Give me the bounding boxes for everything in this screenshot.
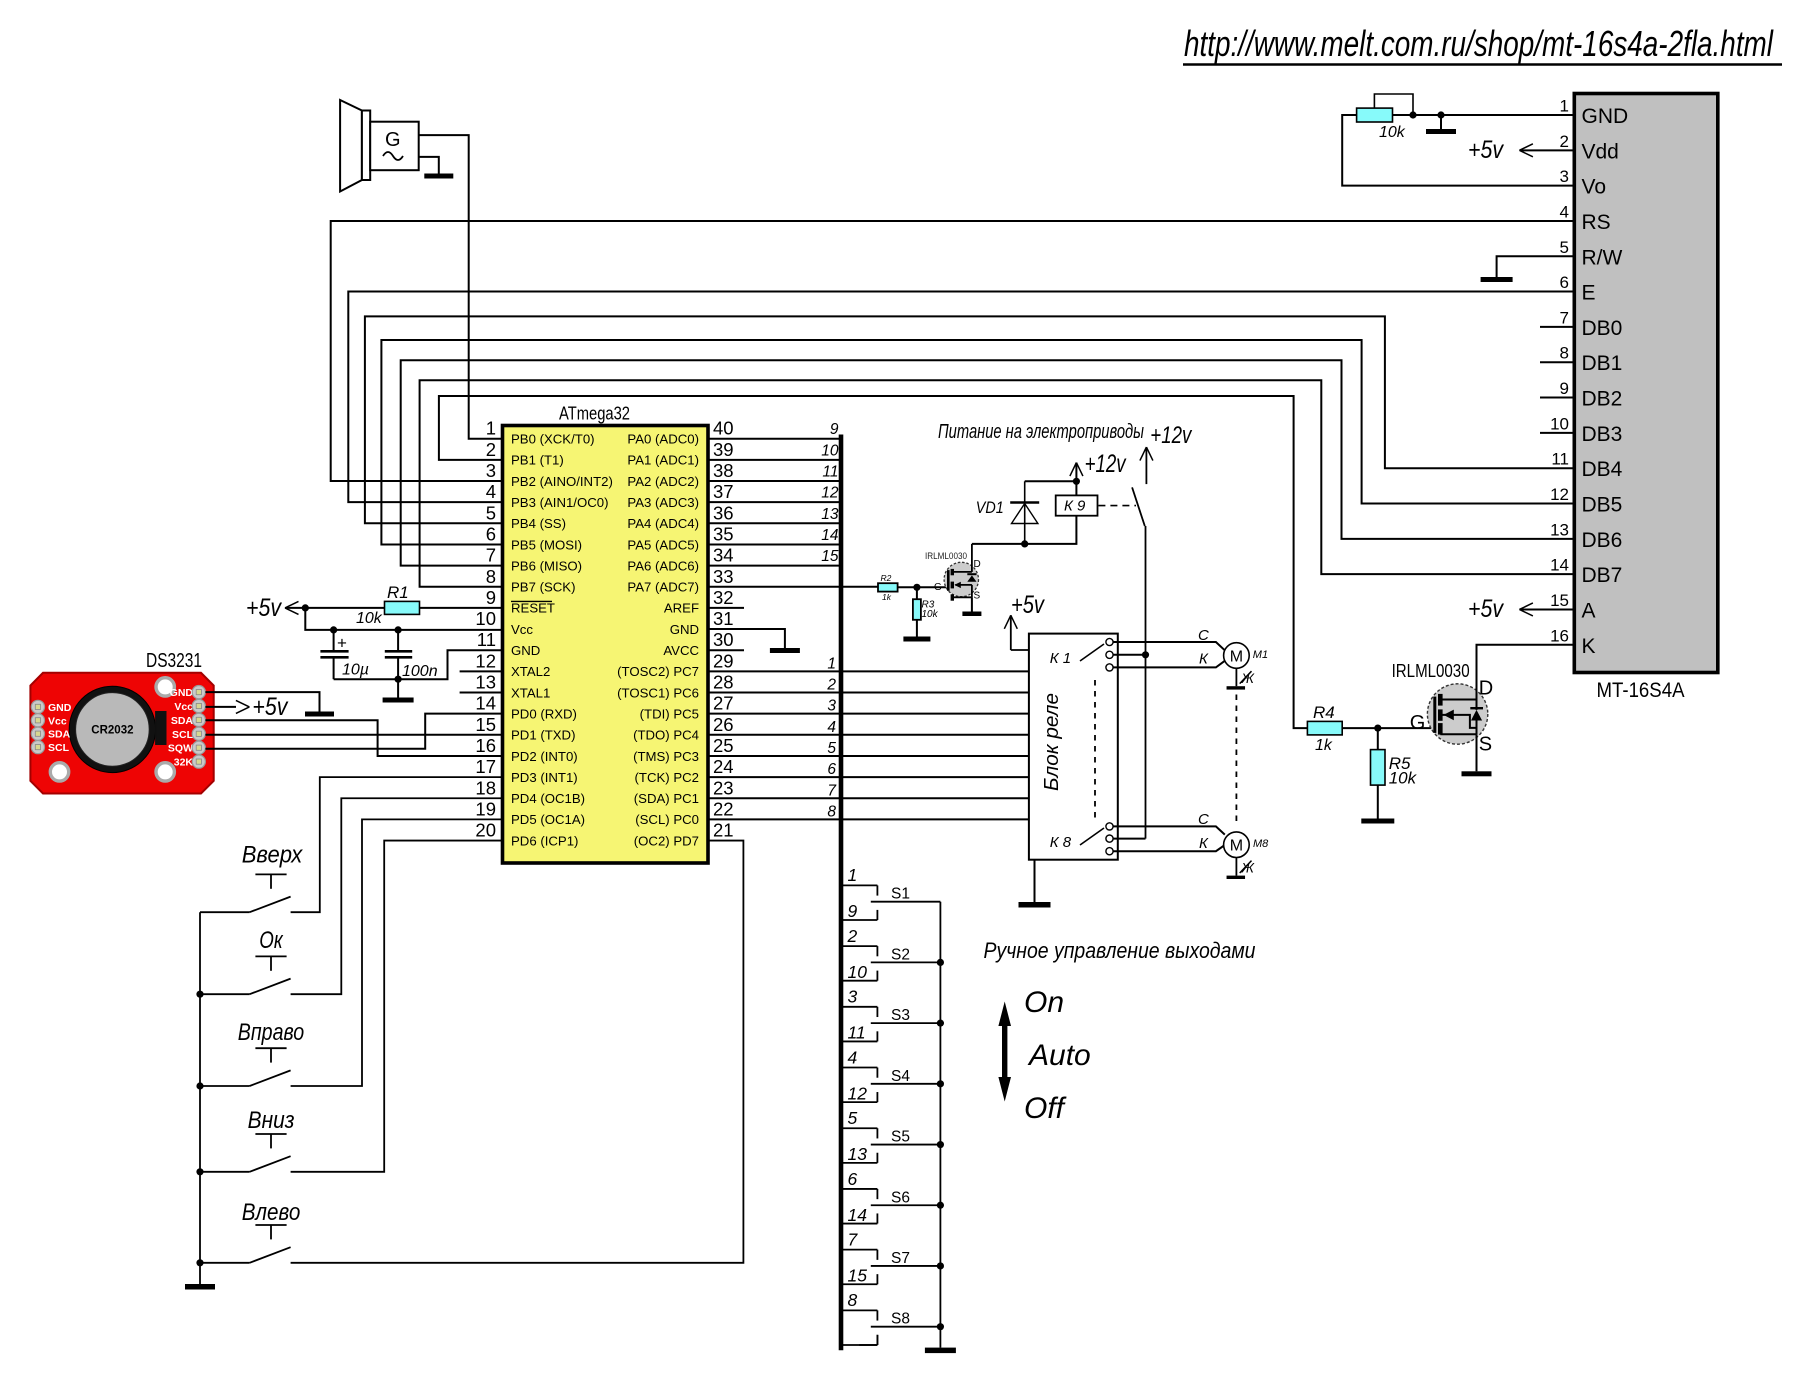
wire switch common (937, 902, 944, 1348)
svg-text:12: 12 (848, 1083, 868, 1103)
svg-text:39: 39 (713, 439, 734, 460)
net label 4 S4 (848, 1047, 858, 1067)
wire K1 NC to M1 K (1113, 651, 1225, 668)
svg-text:G: G (1410, 712, 1426, 734)
svg-text:3: 3 (848, 987, 858, 1007)
svg-text:S3: S3 (891, 1007, 910, 1024)
motor M8 (1224, 832, 1270, 858)
svg-text:R2: R2 (881, 573, 892, 583)
net label 1 S1 (848, 865, 858, 885)
node +5v backlight A (1468, 595, 1574, 623)
svg-text:37: 37 (713, 481, 734, 502)
svg-text:DB0: DB0 (1582, 317, 1623, 340)
svg-text:4: 4 (1560, 202, 1569, 221)
svg-text:1: 1 (848, 865, 858, 885)
wire PA6 net 15 (708, 565, 841, 567)
net label 12 S4 (848, 1083, 868, 1103)
svg-text:6: 6 (827, 761, 836, 778)
wire Ок to pin 18 (291, 798, 503, 994)
svg-text:К 9: К 9 (1064, 498, 1086, 515)
svg-text:M: M (1230, 649, 1243, 666)
svg-text:К: К (1199, 835, 1209, 852)
svg-text:Vcc: Vcc (174, 701, 193, 713)
svg-text:12: 12 (821, 485, 839, 502)
svg-text:14: 14 (821, 527, 839, 544)
svg-text:10: 10 (475, 608, 496, 629)
motor M1 (1224, 643, 1268, 669)
module DS3231 RTC (30, 650, 213, 794)
svg-text:(SCL) PC0: (SCL) PC0 (635, 812, 699, 827)
svg-text:Ручное управление выходами: Ручное управление выходами (984, 938, 1256, 963)
pin DB0 stub (1540, 326, 1574, 328)
svg-text:PB2 (AINO/INT2): PB2 (AINO/INT2) (511, 474, 613, 489)
wire PB2 to LCD RS (331, 221, 1575, 481)
wire button common rail (196, 912, 203, 1284)
net label 11 (822, 464, 838, 481)
wire PC5 net 3 to relay block (708, 713, 1029, 715)
wire PB1 to R4 backlight (439, 396, 1308, 728)
switch S4 (841, 1068, 940, 1103)
svg-text:+5v: +5v (1011, 591, 1045, 619)
svg-text:Ж: Ж (1241, 671, 1256, 686)
svg-text:XTAL2: XTAL2 (511, 664, 550, 679)
wire K1 common +12v (1113, 654, 1146, 656)
svg-text:7: 7 (1560, 308, 1569, 327)
svg-text:ATmega32: ATmega32 (559, 403, 630, 424)
svg-text:29: 29 (713, 650, 734, 671)
svg-text:PA2 (ADC2): PA2 (ADC2) (627, 474, 699, 489)
wire Вправо to pin 19 (291, 819, 503, 1086)
label Auto (1027, 1039, 1091, 1072)
pin XTAL2 stub (460, 670, 503, 672)
svg-text:PB3 (AIN1/OC0): PB3 (AIN1/OC0) (511, 495, 608, 510)
net label 6 (827, 761, 836, 778)
wire PA0 net 9 (708, 438, 841, 440)
wire PC1 net 7 to relay block (708, 797, 1029, 799)
wire PA7 to R2 (708, 586, 878, 588)
svg-text:10: 10 (821, 442, 839, 459)
net label 13 (821, 506, 839, 523)
svg-text:2: 2 (826, 677, 836, 694)
svg-text:PB0 (XCK/T0): PB0 (XCK/T0) (511, 432, 595, 447)
svg-text:IRLML0030: IRLML0030 (925, 551, 967, 562)
svg-text:8: 8 (486, 566, 496, 587)
ground buzzer (419, 157, 454, 179)
switch S8 open stub (859, 1335, 877, 1345)
svg-text:RS: RS (1582, 211, 1611, 234)
svg-text:DB2: DB2 (1582, 388, 1623, 411)
svg-text:К 8: К 8 (1050, 834, 1072, 851)
svg-text:PA7 (ADC7): PA7 (ADC7) (627, 580, 699, 595)
svg-text:D: D (974, 559, 981, 570)
svg-text:GND: GND (48, 702, 72, 714)
selector double arrow (998, 1002, 1011, 1102)
label On (1024, 986, 1064, 1019)
wire +12v to relay commons (1142, 526, 1149, 839)
svg-text:1: 1 (486, 418, 496, 439)
wire Влево to pin 21 (291, 841, 744, 1263)
svg-text:Auto: Auto (1027, 1039, 1091, 1072)
svg-text:+5v: +5v (252, 693, 288, 721)
svg-text:5: 5 (827, 740, 836, 757)
net label 15 S7 (848, 1265, 868, 1285)
svg-text:16: 16 (1550, 626, 1569, 645)
svg-text:1k: 1k (1315, 737, 1333, 754)
net label 6 S6 (848, 1169, 858, 1189)
pin DB2 stub (1540, 397, 1574, 399)
svg-text:Влево: Влево (242, 1199, 301, 1226)
svg-text:К 1: К 1 (1050, 650, 1071, 667)
svg-text:S5: S5 (891, 1129, 910, 1146)
wire Q1 drain to K9 (972, 516, 1077, 548)
net label 12 (821, 485, 839, 502)
svg-text:32: 32 (713, 587, 734, 608)
net label 9 (830, 421, 839, 438)
button Ок (200, 927, 291, 994)
net label 2 S2 (847, 926, 858, 946)
svg-text:R/W: R/W (1582, 246, 1623, 269)
wire PC0 net 8 to relay block (708, 818, 1029, 820)
svg-text:On: On (1024, 986, 1064, 1019)
svg-text:S2: S2 (891, 946, 910, 963)
svg-text:PA0 (ADC0): PA0 (ADC0) (627, 432, 699, 447)
svg-text:6: 6 (1560, 273, 1569, 292)
svg-text:S8: S8 (891, 1311, 910, 1328)
svg-text:PB5 (MOSI): PB5 (MOSI) (511, 537, 582, 552)
svg-text:28: 28 (713, 672, 734, 693)
transistor Q1 IRLML0030 (925, 544, 981, 602)
svg-text:26: 26 (713, 714, 734, 735)
wire PB6 to LCD DB6 (401, 360, 1575, 565)
svg-text:14: 14 (848, 1205, 868, 1225)
svg-text:PD3 (INT1): PD3 (INT1) (511, 770, 578, 785)
svg-text:(SDA) PC1: (SDA) PC1 (634, 791, 699, 806)
svg-text:(TOSC1) PC6: (TOSC1) PC6 (617, 685, 699, 700)
svg-text:10: 10 (848, 962, 868, 982)
svg-text:6: 6 (486, 523, 496, 544)
wire SCL to PD1 (205, 734, 502, 736)
button Влево (200, 1199, 300, 1263)
wire Вверх to pin 17 (291, 777, 503, 912)
switch S1 (841, 885, 940, 920)
pin DB1 stub (1540, 361, 1574, 363)
svg-text:PD1 (TXD): PD1 (TXD) (511, 728, 575, 743)
wire PB4 to LCD DB4 (365, 316, 1574, 523)
svg-text:40: 40 (713, 418, 734, 439)
transistor Q2 IRLML0030 (1392, 661, 1494, 756)
svg-text:9: 9 (830, 421, 839, 438)
svg-text:Блок реле: Блок реле (1041, 693, 1063, 791)
net label 11 S3 (848, 1023, 866, 1043)
svg-text:1k: 1k (882, 592, 892, 602)
svg-text:http://www.melt.com.ru/shop/mt: http://www.melt.com.ru/shop/mt-16s4a-2fl… (1184, 23, 1774, 64)
svg-text:3: 3 (486, 460, 496, 481)
svg-text:20: 20 (475, 820, 496, 841)
svg-text:7: 7 (827, 782, 837, 799)
svg-text:MT-16S4A: MT-16S4A (1597, 678, 1686, 702)
svg-text:9: 9 (486, 587, 496, 608)
svg-text:17: 17 (475, 756, 496, 777)
wire R4 to gate Q2 (1342, 725, 1434, 732)
pin DB3 stub (1540, 432, 1574, 434)
pin AREF stub (708, 607, 744, 609)
svg-text:SDA: SDA (48, 729, 71, 741)
ground M8 (1227, 858, 1256, 880)
ground buttons (185, 1284, 215, 1290)
net label 7 S7 (848, 1229, 859, 1249)
svg-text:35: 35 (713, 523, 734, 544)
svg-text:13: 13 (1550, 520, 1569, 539)
net label 5 (827, 740, 836, 757)
svg-text:AREF: AREF (664, 601, 699, 616)
svg-text:Vo: Vo (1582, 176, 1607, 199)
net label 5 S5 (848, 1108, 858, 1128)
buzzer G1 (340, 100, 419, 192)
label Питание на электроприводы (938, 421, 1144, 443)
svg-text:DB3: DB3 (1582, 423, 1623, 446)
svg-text:36: 36 (713, 502, 734, 523)
ground M1 (1227, 668, 1256, 689)
switch S5 (841, 1128, 940, 1163)
wire PA1 net 10 (708, 459, 841, 461)
wire Вниз to pin 20 (291, 841, 503, 1172)
pin AVCC stub (708, 649, 744, 651)
svg-text:2: 2 (486, 439, 496, 460)
wire K1 NO to M1 C (1113, 627, 1225, 650)
relay K1 contacts (1050, 638, 1113, 671)
svg-text:C: C (1198, 627, 1209, 644)
switch K9 contact (1098, 487, 1144, 526)
contrast trimmer 10k (1342, 94, 1574, 186)
svg-text:PA5 (ADC5): PA5 (ADC5) (627, 537, 699, 552)
svg-text:PD2 (INT0): PD2 (INT0) (511, 749, 578, 764)
svg-text:8: 8 (848, 1290, 858, 1310)
svg-text:C: C (1198, 811, 1209, 828)
svg-text:VD1: VD1 (976, 498, 1004, 517)
switch S3 (841, 1007, 940, 1042)
svg-text:15: 15 (821, 548, 839, 565)
svg-text:GND: GND (670, 622, 699, 637)
svg-text:16: 16 (475, 735, 496, 756)
diode VD1 (976, 481, 1039, 544)
svg-text:18: 18 (475, 777, 496, 798)
relay K8 contacts (1050, 823, 1113, 855)
wire PA3 net 12 (708, 501, 841, 503)
svg-text:12: 12 (1550, 485, 1569, 504)
svg-text:SCL: SCL (172, 729, 194, 741)
svg-text:DB7: DB7 (1582, 564, 1623, 587)
svg-text:+5v: +5v (1468, 136, 1504, 164)
svg-text:33: 33 (713, 566, 734, 587)
svg-text:38: 38 (713, 460, 734, 481)
svg-text:32K: 32K (174, 757, 194, 769)
svg-text:(TDI) PC5: (TDI) PC5 (640, 706, 699, 721)
svg-text:8: 8 (827, 803, 836, 820)
svg-text:8: 8 (1560, 344, 1569, 363)
svg-text:E: E (1582, 282, 1596, 305)
button Вниз (200, 1107, 295, 1172)
svg-text:14: 14 (475, 693, 496, 714)
URL caption (1183, 23, 1782, 65)
svg-text:SDA: SDA (171, 715, 194, 727)
node +5v Vdd (1468, 136, 1574, 164)
wire K8 common +12v (1113, 838, 1146, 840)
net label 13 S5 (848, 1144, 868, 1164)
svg-text:Вправо: Вправо (238, 1019, 304, 1046)
svg-text:7: 7 (486, 545, 496, 566)
svg-text:AVCC: AVCC (663, 643, 699, 658)
svg-text:+: + (337, 634, 347, 653)
ground R/W (1481, 256, 1575, 282)
svg-text:24: 24 (713, 756, 734, 777)
IC ATmega32 (475, 403, 733, 864)
svg-text:R4: R4 (1313, 703, 1335, 722)
svg-text:PB6 (MISO): PB6 (MISO) (511, 558, 582, 573)
switch S7 (841, 1250, 940, 1285)
svg-text:R1: R1 (387, 583, 409, 602)
svg-text:10k: 10k (1389, 769, 1418, 788)
svg-text:D: D (1479, 678, 1493, 700)
svg-text:CR2032: CR2032 (91, 725, 133, 737)
resistor R4 1k (1307, 703, 1342, 754)
svg-text:10k: 10k (356, 610, 383, 627)
svg-text:11: 11 (477, 629, 496, 650)
svg-text:3: 3 (1560, 167, 1569, 186)
net label 4 (827, 719, 836, 736)
svg-text:S: S (1479, 734, 1492, 756)
svg-text:(TDO) PC4: (TDO) PC4 (633, 728, 699, 743)
net label 1 (827, 655, 836, 672)
svg-text:G: G (385, 129, 401, 151)
svg-text:Вниз: Вниз (248, 1107, 295, 1134)
ground Q1 source (962, 597, 981, 616)
pin XTAL1 stub (460, 692, 503, 694)
label Ручное управление выходами (984, 938, 1256, 963)
wire PB5 to LCD DB5 (381, 340, 1574, 544)
svg-text:A: A (1582, 599, 1596, 622)
switch S2 (841, 946, 940, 981)
svg-text:DB4: DB4 (1582, 458, 1623, 481)
svg-text:9: 9 (1560, 379, 1569, 398)
button Вверх (200, 842, 303, 913)
svg-text:(TMS) PC3: (TMS) PC3 (633, 749, 699, 764)
svg-text:10k: 10k (1379, 124, 1406, 141)
svg-text:Вверх: Вверх (242, 842, 304, 869)
svg-text:13: 13 (475, 672, 496, 693)
relay block Блок реле (1029, 634, 1118, 860)
wire PC4 net 4 to relay block (708, 734, 1029, 736)
net label 14 (821, 527, 839, 544)
capacitor C1 10µ (320, 630, 369, 679)
svg-text:21: 21 (713, 820, 734, 841)
svg-text:PA6 (ADC6): PA6 (ADC6) (627, 558, 699, 573)
wire PC7 net 1 to relay block (708, 670, 1029, 672)
ground decoupling (383, 679, 414, 702)
wire cap gnd rail to pin11 (334, 650, 503, 683)
svg-text:S1: S1 (891, 886, 910, 903)
svg-text:S: S (974, 591, 981, 602)
svg-text:+12v: +12v (1085, 450, 1127, 478)
svg-text:SQW: SQW (168, 743, 193, 755)
svg-text:GND: GND (1582, 105, 1629, 128)
svg-text:PB7 (SCK): PB7 (SCK) (511, 580, 576, 595)
svg-text:M: M (1230, 838, 1243, 855)
wire buzzer to PB0 pin1 (419, 135, 503, 439)
svg-text:10µ: 10µ (342, 662, 369, 679)
svg-text:Ж: Ж (1241, 860, 1256, 875)
svg-text:PD0 (RXD): PD0 (RXD) (511, 706, 577, 721)
wire K8 NO to M8 C (1113, 811, 1225, 835)
svg-text:XTAL1: XTAL1 (511, 685, 550, 700)
svg-text:(OC2) PD7: (OC2) PD7 (634, 833, 699, 848)
svg-text:2: 2 (1560, 132, 1569, 151)
svg-text:К: К (1199, 651, 1209, 668)
svg-text:+5v: +5v (246, 594, 282, 622)
net label 14 S6 (848, 1205, 868, 1225)
wire DS3231 GND (205, 692, 334, 716)
wire PB3 to LCD E (348, 292, 1574, 503)
svg-text:11: 11 (822, 464, 838, 481)
svg-text:DB6: DB6 (1582, 529, 1623, 552)
button Вправо (200, 1019, 304, 1086)
resistor R3 10k (913, 587, 939, 636)
svg-text:5: 5 (848, 1108, 858, 1128)
svg-text:14: 14 (1550, 556, 1569, 575)
svg-text:31: 31 (713, 608, 734, 629)
svg-text:15: 15 (848, 1265, 868, 1285)
svg-text:Vcc: Vcc (48, 715, 67, 727)
net label 9 S1 (848, 901, 858, 921)
svg-text:Off: Off (1024, 1092, 1067, 1125)
resistor R2 1k (878, 573, 898, 602)
resistor R1 10k (305, 583, 502, 627)
svg-text:27: 27 (713, 693, 734, 714)
ground AGND pin31 (708, 629, 800, 653)
svg-text:K: K (1582, 635, 1596, 658)
svg-text:3: 3 (827, 698, 836, 715)
net label 10 (821, 442, 839, 459)
wire Vcc rail (305, 608, 502, 634)
svg-text:Vcc: Vcc (511, 622, 533, 637)
wire PA4 net 13 (708, 522, 841, 524)
svg-text:DS3231: DS3231 (146, 650, 202, 672)
node +5v relay block (1004, 591, 1045, 650)
svg-text:7: 7 (848, 1229, 859, 1249)
node +12v feed (1140, 422, 1193, 484)
svg-text:PB4 (SS): PB4 (SS) (511, 516, 566, 531)
svg-text:PB1 (T1): PB1 (T1) (511, 453, 564, 468)
net label 8 (827, 803, 836, 820)
dashed repeat link motors (1235, 695, 1237, 823)
svg-text:100n: 100n (402, 663, 438, 680)
capacitor C2 100n (385, 630, 438, 680)
resistor R5 10k (1371, 728, 1418, 818)
bus cable (839, 435, 844, 1351)
node +12v K9 (1025, 450, 1127, 485)
svg-text:S7: S7 (891, 1250, 910, 1267)
net label 8 S8 (848, 1290, 858, 1310)
svg-text:S4: S4 (891, 1068, 910, 1085)
svg-text:S6: S6 (891, 1189, 910, 1206)
wire SDA to PD2 (205, 720, 502, 756)
ground LCD GND (1426, 115, 1456, 134)
svg-text:4: 4 (486, 481, 496, 502)
LCD module MT-16S4A (1550, 94, 1718, 703)
svg-text:PD6 (ICP1): PD6 (ICP1) (511, 833, 578, 848)
svg-text:DB1: DB1 (1582, 352, 1623, 375)
wire PA2 net 11 (708, 480, 841, 482)
svg-text:DB5: DB5 (1582, 494, 1623, 517)
